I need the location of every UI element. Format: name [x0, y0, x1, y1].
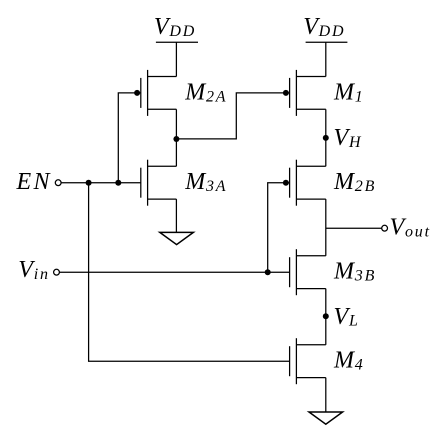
- wire Vout tap: [326, 227, 382, 229]
- label M2A: [184, 79, 227, 105]
- label M3A: [184, 169, 227, 195]
- svg-text:M2A: M2A: [184, 79, 227, 105]
- svg-text:M1: M1: [333, 79, 365, 105]
- wire EN to M4 gate: [89, 183, 290, 362]
- label Vout: [390, 215, 431, 241]
- label VDD (left): [154, 14, 196, 40]
- svg-text:VL: VL: [334, 304, 360, 330]
- wire M2B gate down to Vin line: [268, 183, 290, 273]
- transistor M1: [290, 70, 326, 116]
- terminal EN (open circle): [55, 180, 61, 186]
- wire M1 source to M2B drain: [325, 109, 327, 166]
- svg-text:VDD: VDD: [154, 14, 196, 40]
- junction dot node A: [173, 136, 179, 142]
- svg-text:Vout: Vout: [390, 215, 431, 241]
- junction dot on EN line (branch up): [115, 180, 121, 186]
- wire M2A source to M3A drain: [175, 109, 177, 166]
- wire M4 source down to ground: [325, 378, 327, 412]
- node VH junction dot: [323, 135, 329, 141]
- wire VDD left rail to M2A drain: [175, 42, 177, 76]
- label EN: [16, 169, 52, 195]
- transistor M2B: [290, 160, 326, 206]
- terminal Vout (open circle): [382, 225, 388, 231]
- label M3B: [333, 259, 376, 285]
- transistor M4: [290, 338, 326, 384]
- wire EN line: [61, 182, 141, 184]
- label M1: [333, 79, 365, 105]
- junction dot at M2A gate: [134, 90, 140, 96]
- label VH: [334, 125, 363, 151]
- svg-text:EN: EN: [16, 169, 52, 195]
- label VDD (right): [303, 14, 345, 40]
- svg-text:Vin: Vin: [18, 257, 50, 283]
- wire node A to M1 gate: [176, 93, 289, 139]
- junction dot at M2B gate: [283, 180, 289, 186]
- junction dot on Vin line: [265, 269, 271, 275]
- transistor M3B: [290, 249, 326, 295]
- junction dot at M1 gate: [283, 90, 289, 96]
- transistor M2A: [141, 70, 177, 116]
- label M4: [333, 348, 365, 374]
- junction dot on EN line (branch down to M4): [86, 180, 92, 186]
- terminal Vin (open circle): [54, 269, 60, 275]
- wire EN branch up to M2A gate: [118, 93, 141, 183]
- svg-text:M4: M4: [333, 348, 365, 374]
- wire Vin line to M3B gate: [59, 271, 289, 273]
- svg-text:M2B: M2B: [333, 169, 376, 195]
- transistor M3A: [141, 160, 177, 206]
- node VL junction dot: [323, 313, 329, 319]
- wire M3A source down to ground: [175, 199, 177, 232]
- svg-text:VDD: VDD: [303, 14, 345, 40]
- label VL: [334, 304, 360, 330]
- power rail VDD (right) bar: [306, 41, 348, 43]
- label Vin: [18, 257, 50, 283]
- ground (right): [309, 412, 343, 424]
- wire VDD right rail to M1 drain: [325, 42, 327, 76]
- power rail VDD (left) bar: [156, 41, 198, 43]
- wire M3B source to M4 drain: [325, 289, 327, 345]
- ground (left): [160, 232, 194, 244]
- svg-text:VH: VH: [334, 125, 363, 151]
- svg-text:M3A: M3A: [184, 169, 227, 195]
- svg-text:M3B: M3B: [333, 259, 376, 285]
- wire M2B source to M3B drain: [325, 199, 327, 256]
- label M2B: [333, 169, 376, 195]
